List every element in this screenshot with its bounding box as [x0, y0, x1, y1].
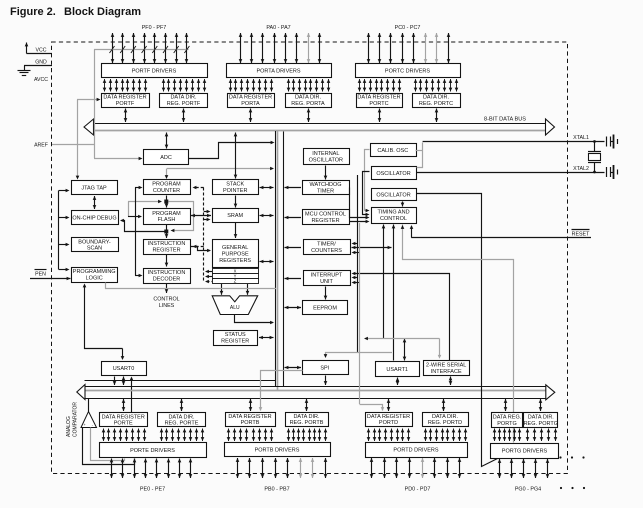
wire bus to DATA DIR PORTE [181, 399, 183, 411]
wire INTERRUPT UNIT to enclosure rail [285, 278, 302, 280]
wire INSTR REG to DECODER [166, 255, 168, 267]
wire control vertical B [353, 252, 360, 254]
block DATA DIR. REG. PORTE [158, 413, 206, 427]
crystal Y1 [594, 142, 596, 152]
svg-text:PORTC: PORTC [369, 101, 388, 107]
block DATA REG. PORTG [492, 413, 523, 428]
block PORTB DRIVERS [225, 443, 331, 457]
wire SPI to enclosure rail [285, 367, 302, 369]
svg-text:COUNTERS: COUNTERS [311, 248, 342, 254]
svg-text:DATA REGISTER: DATA REGISTER [102, 414, 145, 420]
svg-text:CONTROL: CONTROL [153, 297, 179, 303]
wire CALIB OSC to TIMING (gray) [365, 150, 370, 211]
svg-text:TIMER: TIMER [317, 188, 334, 194]
svg-text:REG. PORTE: REG. PORTE [165, 421, 199, 427]
svg-text:REGISTER: REGISTER [311, 218, 339, 224]
block USART0 [102, 362, 147, 376]
svg-text:ANALOG: ANALOG [66, 416, 72, 437]
block DATA REGISTER PORTB [226, 413, 276, 427]
svg-text:REG. PORTB: REG. PORTB [290, 420, 324, 426]
wire comparator output [88, 399, 90, 412]
block GENERAL PURPOSE REGISTERS [213, 240, 259, 268]
wire debug tap feed upper (gray) [128, 202, 130, 217]
svg-text:PORTE: PORTE [114, 421, 133, 427]
internal data bus rail (black) [275, 131, 277, 386]
block EEPROM [303, 301, 348, 315]
wire OSCILLATOR to TIMING [363, 172, 370, 215]
wire bus to DATA REG PORTG [505, 399, 507, 411]
svg-text:COUNTER: COUNTER [153, 188, 180, 194]
portA regs to data bus arrows [250, 109, 252, 123]
wire comparator input AIN1 [83, 428, 135, 465]
wire ADC to data bus [166, 133, 168, 149]
svg-text:DATA DIR.: DATA DIR. [168, 414, 195, 420]
portC regs to data bus arrows [379, 109, 381, 123]
wire INSTR REGISTER to GPR [191, 247, 210, 251]
svg-text:REG. PORTA: REG. PORTA [291, 101, 325, 107]
block DATA DIR. REG. PORTA [286, 94, 332, 108]
wire bus to STACK POINTER [235, 133, 237, 179]
wire STACK POINTER to SRAM [235, 196, 237, 208]
block PORTC DRIVERS [356, 64, 461, 78]
svg-text:INSTRUCTION: INSTRUCTION [148, 241, 186, 247]
svg-text:DATA DIR.: DATA DIR. [423, 95, 450, 101]
block STACK POINTER [213, 180, 259, 195]
svg-text:INTERRUPT: INTERRUPT [311, 273, 343, 279]
svg-text:AREF: AREF [34, 143, 48, 149]
svg-text:2-WIRE SERIAL: 2-WIRE SERIAL [426, 363, 466, 369]
block ON-CHIP DEBUG [72, 211, 119, 225]
svg-text:MCU CONTROL: MCU CONTROL [305, 212, 346, 218]
port E pins PE0-PE7 [111, 459, 113, 479]
block DATA DIR. REG. PORTC [413, 94, 461, 108]
wire FLASH to INSTR REGISTER with debug tap [166, 225, 168, 238]
svg-text:EEPROM: EEPROM [313, 305, 337, 311]
svg-text:PEN: PEN [35, 272, 46, 278]
wire SPI to bus [325, 376, 327, 386]
wire USART0 to bus A [114, 377, 116, 386]
svg-text:INSTRUCTION: INSTRUCTION [148, 270, 186, 276]
block DATA DIR. REG. PORTG [524, 413, 559, 428]
svg-text:OSCILLATOR: OSCILLATOR [376, 193, 410, 199]
svg-text:REGISTERS: REGISTERS [219, 258, 251, 264]
wire INTERRUPT to EEPROM [325, 287, 327, 300]
wire CALIB OSC stub [416, 150, 423, 152]
wire PROGRAMMING LOGIC gray tap [105, 283, 107, 289]
svg-text:PG0 - PG4: PG0 - PG4 [515, 487, 541, 493]
svg-text:REGISTER: REGISTER [221, 338, 249, 344]
svg-text:ADC: ADC [160, 155, 172, 161]
block STATUS REGISTER [214, 331, 258, 346]
svg-text:PORTA: PORTA [241, 101, 260, 107]
wire comparator input AIN0 (gray) [91, 428, 125, 461]
block OSCILLATOR (timer) [372, 189, 417, 201]
svg-text:PF0 - PF7: PF0 - PF7 [142, 25, 167, 31]
svg-text:STACK: STACK [226, 182, 244, 188]
wire INTERRUPT to 2-WIRE [354, 274, 450, 361]
wire INTERNAL OSC to WATCHDOG [325, 166, 327, 180]
block PORTA DRIVERS [227, 64, 332, 78]
svg-text:PORTF: PORTF [116, 101, 135, 107]
block PORTF DRIVERS [102, 64, 208, 78]
wire ON-CHIP DEBUG tap link [122, 221, 167, 232]
wire USART0 pin line [131, 378, 133, 413]
svg-text:TIMER/: TIMER/ [317, 242, 336, 248]
portD register-driver arrows [368, 429, 370, 442]
block DATA DIR. REG. PORTF [160, 94, 208, 108]
svg-text:CONTROL: CONTROL [380, 216, 407, 222]
peripheral bus rail [283, 132, 285, 387]
wire ALU output to rail [235, 315, 273, 323]
svg-text:VCC: VCC [36, 48, 47, 54]
capacitor C1 on XTAL1 [606, 137, 608, 147]
svg-text:PB0 - PB7: PB0 - PB7 [264, 487, 289, 493]
svg-text:PORTF DRIVERS: PORTF DRIVERS [132, 68, 177, 74]
svg-text:AVCC: AVCC [34, 77, 48, 83]
analog mux line over PF pins [94, 49, 189, 51]
svg-text:DATA DIR.: DATA DIR. [295, 95, 322, 101]
svg-text:LINES: LINES [159, 303, 175, 309]
block SPI [303, 361, 349, 375]
block DATA REGISTER PORTC [357, 94, 403, 108]
svg-text:PD0 - PD7: PD0 - PD7 [405, 487, 431, 493]
block PROGRAM COUNTER [144, 180, 191, 195]
svg-text:DATA DIR.: DATA DIR. [170, 95, 197, 101]
block TIMING AND CONTROL [372, 208, 417, 224]
wire TIMING to PORTG (gray) [403, 225, 514, 443]
svg-text:DATA DIR.: DATA DIR. [432, 414, 459, 420]
wire STACK POINTER to rail [260, 187, 274, 189]
block PORTD DRIVERS [366, 443, 468, 458]
svg-text:Z: Z [234, 279, 237, 284]
wire GPR to ALU right [247, 284, 249, 295]
VCC pin [27, 53, 53, 55]
block DATA REGISTER PORTA [228, 94, 275, 108]
wire decoder control lines [166, 284, 168, 294]
wire SPI feed (gray) [325, 352, 392, 354]
wire SPI to PORTB (gray) [261, 371, 303, 411]
svg-text:PE0 - PE7: PE0 - PE7 [140, 487, 165, 493]
svg-text:REG. PORTF: REG. PORTF [167, 101, 201, 107]
svg-text:PORTD DRIVERS: PORTD DRIVERS [393, 447, 438, 453]
svg-text:PA0 - PA7: PA0 - PA7 [266, 25, 290, 31]
wire FLASH-SRAM [191, 215, 211, 217]
block 2-WIRE SERIAL INTERFACE [424, 361, 470, 376]
svg-text:OSCILLATOR: OSCILLATOR [376, 171, 410, 177]
internal data bus (lower) [85, 380, 277, 382]
wire JTAG to PORTF register (gray) [77, 99, 99, 101]
svg-text:PROGRAMMING: PROGRAMMING [73, 269, 116, 275]
port G pins PG0-PG4 [499, 459, 501, 478]
svg-text:DATA REGISTER: DATA REGISTER [357, 95, 400, 101]
svg-text:RESET: RESET [572, 232, 590, 238]
wire indirect addressing (dashed) [203, 188, 205, 282]
block DATA DIR. REG. PORTB [286, 413, 329, 427]
svg-text:PROGRAM: PROGRAM [152, 211, 181, 217]
Y register row [213, 274, 259, 279]
svg-text:Block Diagram: Block Diagram [64, 6, 141, 18]
block USART1 [376, 362, 420, 377]
block INTERNAL OSCILLATOR [304, 149, 350, 165]
portF driver-register arrows [104, 79, 106, 92]
wire debug tap loop lower (gray) [169, 202, 194, 231]
wire control vertical A [357, 175, 359, 352]
block PROGRAMMING LOGIC [72, 268, 118, 283]
svg-text:INTERNAL: INTERNAL [312, 151, 339, 157]
svg-text:PC0 - PC7: PC0 - PC7 [395, 25, 421, 31]
svg-text:SPI: SPI [320, 365, 329, 371]
X register row [213, 269, 259, 274]
block DATA REGISTER PORTD [366, 413, 413, 427]
svg-text:JTAG TAP: JTAG TAP [81, 185, 107, 191]
svg-text:USART1: USART1 [386, 367, 408, 373]
wire GPR to rail [260, 261, 274, 263]
svg-text:PORTE DRIVERS: PORTE DRIVERS [130, 448, 175, 454]
port B pins PB0-PB7 [237, 458, 239, 478]
block WATCHDOG TIMER [303, 181, 350, 195]
wire TIMING to USART1 [393, 225, 395, 361]
wire SRAM to GP registers [235, 223, 237, 238]
block JTAG TAP [72, 181, 118, 195]
svg-text:CALIB. OSC: CALIB. OSC [377, 148, 408, 154]
wire RESET [411, 237, 591, 239]
wire PROGRAMMING LOGIC to USART0 [85, 285, 123, 349]
portC driver-register arrows [359, 79, 361, 92]
wire XTAL2 [416, 172, 605, 174]
block BOUNDARY-SCAN [72, 238, 119, 252]
svg-text:WATCHDOG: WATCHDOG [309, 182, 341, 188]
svg-text:DATA REG.: DATA REG. [493, 415, 522, 421]
svg-text:ON-CHIP DEBUG: ON-CHIP DEBUG [72, 216, 116, 222]
svg-text:GENERAL: GENERAL [222, 245, 248, 251]
Z register row [213, 279, 259, 284]
wire WATCHDOG to enclosure rail [285, 187, 302, 189]
block PROGRAM FLASH [144, 209, 191, 225]
block OSCILLATOR (main) [372, 167, 417, 180]
port A pins PA0-PA7 [240, 33, 242, 63]
svg-text:Figure 2.: Figure 2. [10, 6, 56, 18]
wire USART0 to bus B [123, 377, 125, 386]
GND pin and ground symbol [24, 65, 52, 67]
block ADC [144, 150, 189, 165]
portA driver-register arrows [230, 79, 232, 92]
block CALIB. OSC [371, 144, 417, 157]
svg-text:PORTG DRIVERS: PORTG DRIVERS [502, 448, 548, 454]
wire interrupt lateral (gray) [366, 338, 440, 340]
svg-text:8-BIT DATA BUS: 8-BIT DATA BUS [484, 117, 526, 123]
analog comparator [81, 412, 97, 428]
wire OSC2 TOSC drop [417, 194, 498, 467]
svg-text:USART0: USART0 [113, 366, 135, 372]
wire bus to DATA REGISTER PORTD [388, 399, 390, 411]
wire SRAM to rail [260, 215, 274, 217]
port F pins PF0-PF7 [112, 33, 114, 63]
svg-text:INTERFACE: INTERFACE [431, 369, 462, 375]
block DATA REGISTER PORTF [102, 94, 150, 108]
wire USART1 to bus [397, 378, 399, 386]
portE register-driver arrows [103, 429, 105, 442]
wire MCU CONTROL to enclosure rail [285, 217, 302, 219]
svg-text:SRAM: SRAM [227, 213, 243, 219]
block INTERRUPT UNIT [304, 271, 351, 286]
svg-text:LOGIC: LOGIC [86, 275, 103, 281]
portF regs to data bus arrows [125, 109, 127, 123]
port D pins PD0-PD7 [371, 458, 373, 478]
svg-text:DATA REGISTER: DATA REGISTER [103, 95, 146, 101]
wire STATUS REGISTER to rail [259, 337, 274, 339]
wire bus to DATA REGISTER PORTB [250, 399, 252, 411]
svg-text:PROGRAM: PROGRAM [152, 182, 181, 188]
svg-text:SCAN: SCAN [87, 246, 102, 252]
wire XTAL1 [423, 141, 605, 143]
svg-text:PURPOSE: PURPOSE [222, 252, 249, 258]
wire AREF to ADC (gray) [52, 144, 94, 146]
wire control to USART1 [404, 339, 406, 361]
wire oscillator to XTAL1 riser [417, 143, 423, 168]
wire bus to DATA REGISTER PORTE [123, 399, 125, 411]
wire bus to DATA DIR PORTD [443, 399, 445, 411]
svg-text:COMPARATOR: COMPARATOR [73, 402, 79, 437]
wire JTAG TAP to ON-CHIP DEBUG [94, 196, 96, 209]
svg-text:POINTER: POINTER [223, 188, 247, 194]
svg-text:XTAL2: XTAL2 [573, 166, 589, 172]
svg-text:PORTB: PORTB [241, 420, 260, 426]
block SRAM [213, 209, 259, 223]
wire GPR to ALU left [221, 284, 223, 295]
internal data bus rail (gray) [277, 131, 279, 390]
svg-text:PORTG: PORTG [497, 421, 516, 427]
port C pins PC0-PC7 [368, 33, 370, 63]
block PORTG DRIVERS [491, 444, 559, 459]
svg-text:GND: GND [35, 60, 47, 66]
wire EEPROM to enclosure rail [285, 307, 302, 309]
continuation dots upper [559, 456, 561, 458]
svg-text:REG. PORTD: REG. PORTD [428, 420, 462, 426]
block DATA REGISTER PORTE [100, 413, 148, 427]
svg-text:PORTC DRIVERS: PORTC DRIVERS [385, 68, 430, 74]
wire PC to FLASH with debug tap [166, 196, 168, 208]
wire TIMER/COUNTERS to enclosure rail [285, 247, 302, 249]
block TIMER/COUNTERS [304, 240, 351, 255]
svg-text:DATA REGISTER: DATA REGISTER [367, 414, 410, 420]
wire OSC2 to TIMING [402, 202, 404, 207]
svg-text:DATA REGISTER: DATA REGISTER [229, 95, 272, 101]
wire MCU CONTROL to TIMING [349, 221, 368, 223]
wire bus to DATA DIR PORTG [540, 399, 542, 411]
svg-text:BOUNDARY-: BOUNDARY- [78, 239, 111, 245]
svg-text:UNIT: UNIT [320, 279, 333, 285]
ALU [212, 296, 258, 315]
wire JTAG chain rail [58, 191, 60, 270]
wire program counter feed (gray) [167, 168, 272, 170]
chip boundary (dashed) [52, 42, 568, 474]
wire decoder to PC rail [135, 188, 137, 276]
wire TIMER to USART1 line [352, 247, 392, 249]
svg-text:FLASH: FLASH [158, 217, 176, 223]
svg-text:TIMING AND: TIMING AND [377, 210, 409, 216]
wire ADC to internal rail [189, 143, 273, 159]
svg-text:PORTA DRIVERS: PORTA DRIVERS [256, 68, 300, 74]
block DATA DIR. REG. PORTD [423, 413, 469, 427]
portB register-driver arrows [228, 429, 230, 442]
svg-text:DECODER: DECODER [153, 276, 181, 282]
continuation dots lower [560, 487, 562, 489]
svg-text:PORTB DRIVERS: PORTB DRIVERS [255, 448, 300, 454]
wire WATCHDOG to TIMING [350, 188, 368, 218]
wire control to PORTD (gray) [359, 223, 361, 404]
svg-text:DATA DIR.: DATA DIR. [528, 415, 555, 421]
svg-text:STATUS: STATUS [225, 332, 246, 338]
wire bus to DATA DIR PORTB [306, 399, 308, 411]
wire analog to ADC (gray) [94, 50, 96, 159]
svg-text:PORTD: PORTD [379, 420, 398, 426]
wire TIMING feedback A [383, 225, 385, 339]
capacitor C2 on XTAL2 [606, 167, 608, 177]
svg-text:DATA REGISTER: DATA REGISTER [228, 414, 271, 420]
svg-text:REG. PORTG: REG. PORTG [524, 421, 558, 427]
svg-text:ALU: ALU [230, 305, 240, 311]
block INSTRUCTION REGISTER [144, 240, 191, 255]
block INSTRUCTION DECODER [144, 269, 191, 284]
svg-text:DATA DIR.: DATA DIR. [293, 414, 320, 420]
svg-text:+: + [84, 423, 86, 427]
8-bit data bus (top) [94, 123, 547, 125]
portG register-driver arrows [494, 429, 496, 442]
svg-text:XTAL1: XTAL1 [573, 135, 589, 141]
svg-text:REG. PORTC: REG. PORTC [419, 101, 453, 107]
svg-text:OSCILLATOR: OSCILLATOR [309, 157, 343, 163]
block MCU CONTROL REGISTER [303, 210, 350, 225]
block PORTE DRIVERS [100, 443, 207, 458]
wire 2-WIRE to bus [450, 377, 452, 386]
svg-text:REGISTER: REGISTER [152, 247, 180, 253]
